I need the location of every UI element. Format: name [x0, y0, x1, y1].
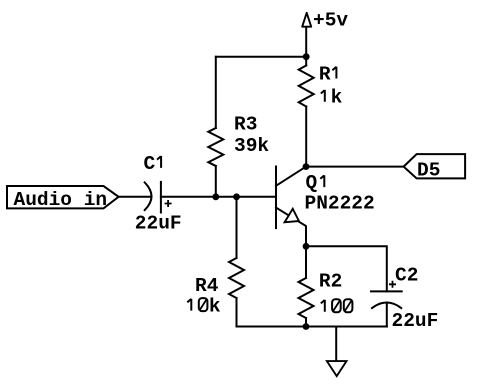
svg-text:39k: 39k	[234, 135, 269, 157]
svg-text:22uF: 22uF	[135, 213, 182, 235]
svg-text:k: k	[331, 87, 343, 109]
svg-text:22uF: 22uF	[392, 310, 439, 332]
svg-text:Q: Q	[306, 172, 318, 194]
svg-text:PN2222: PN2222	[305, 192, 375, 214]
svg-text:+5v: +5v	[313, 10, 348, 32]
svg-text:R: R	[319, 63, 331, 85]
svg-text:R3: R3	[234, 113, 257, 135]
svg-text:k: k	[209, 296, 221, 318]
svg-text:R2: R2	[319, 271, 342, 293]
svg-text:C2: C2	[395, 264, 418, 286]
svg-text:D5: D5	[417, 159, 440, 181]
svg-text:Audio in: Audio in	[14, 189, 108, 211]
svg-text:C: C	[144, 153, 156, 175]
svg-text:R4: R4	[195, 275, 219, 297]
